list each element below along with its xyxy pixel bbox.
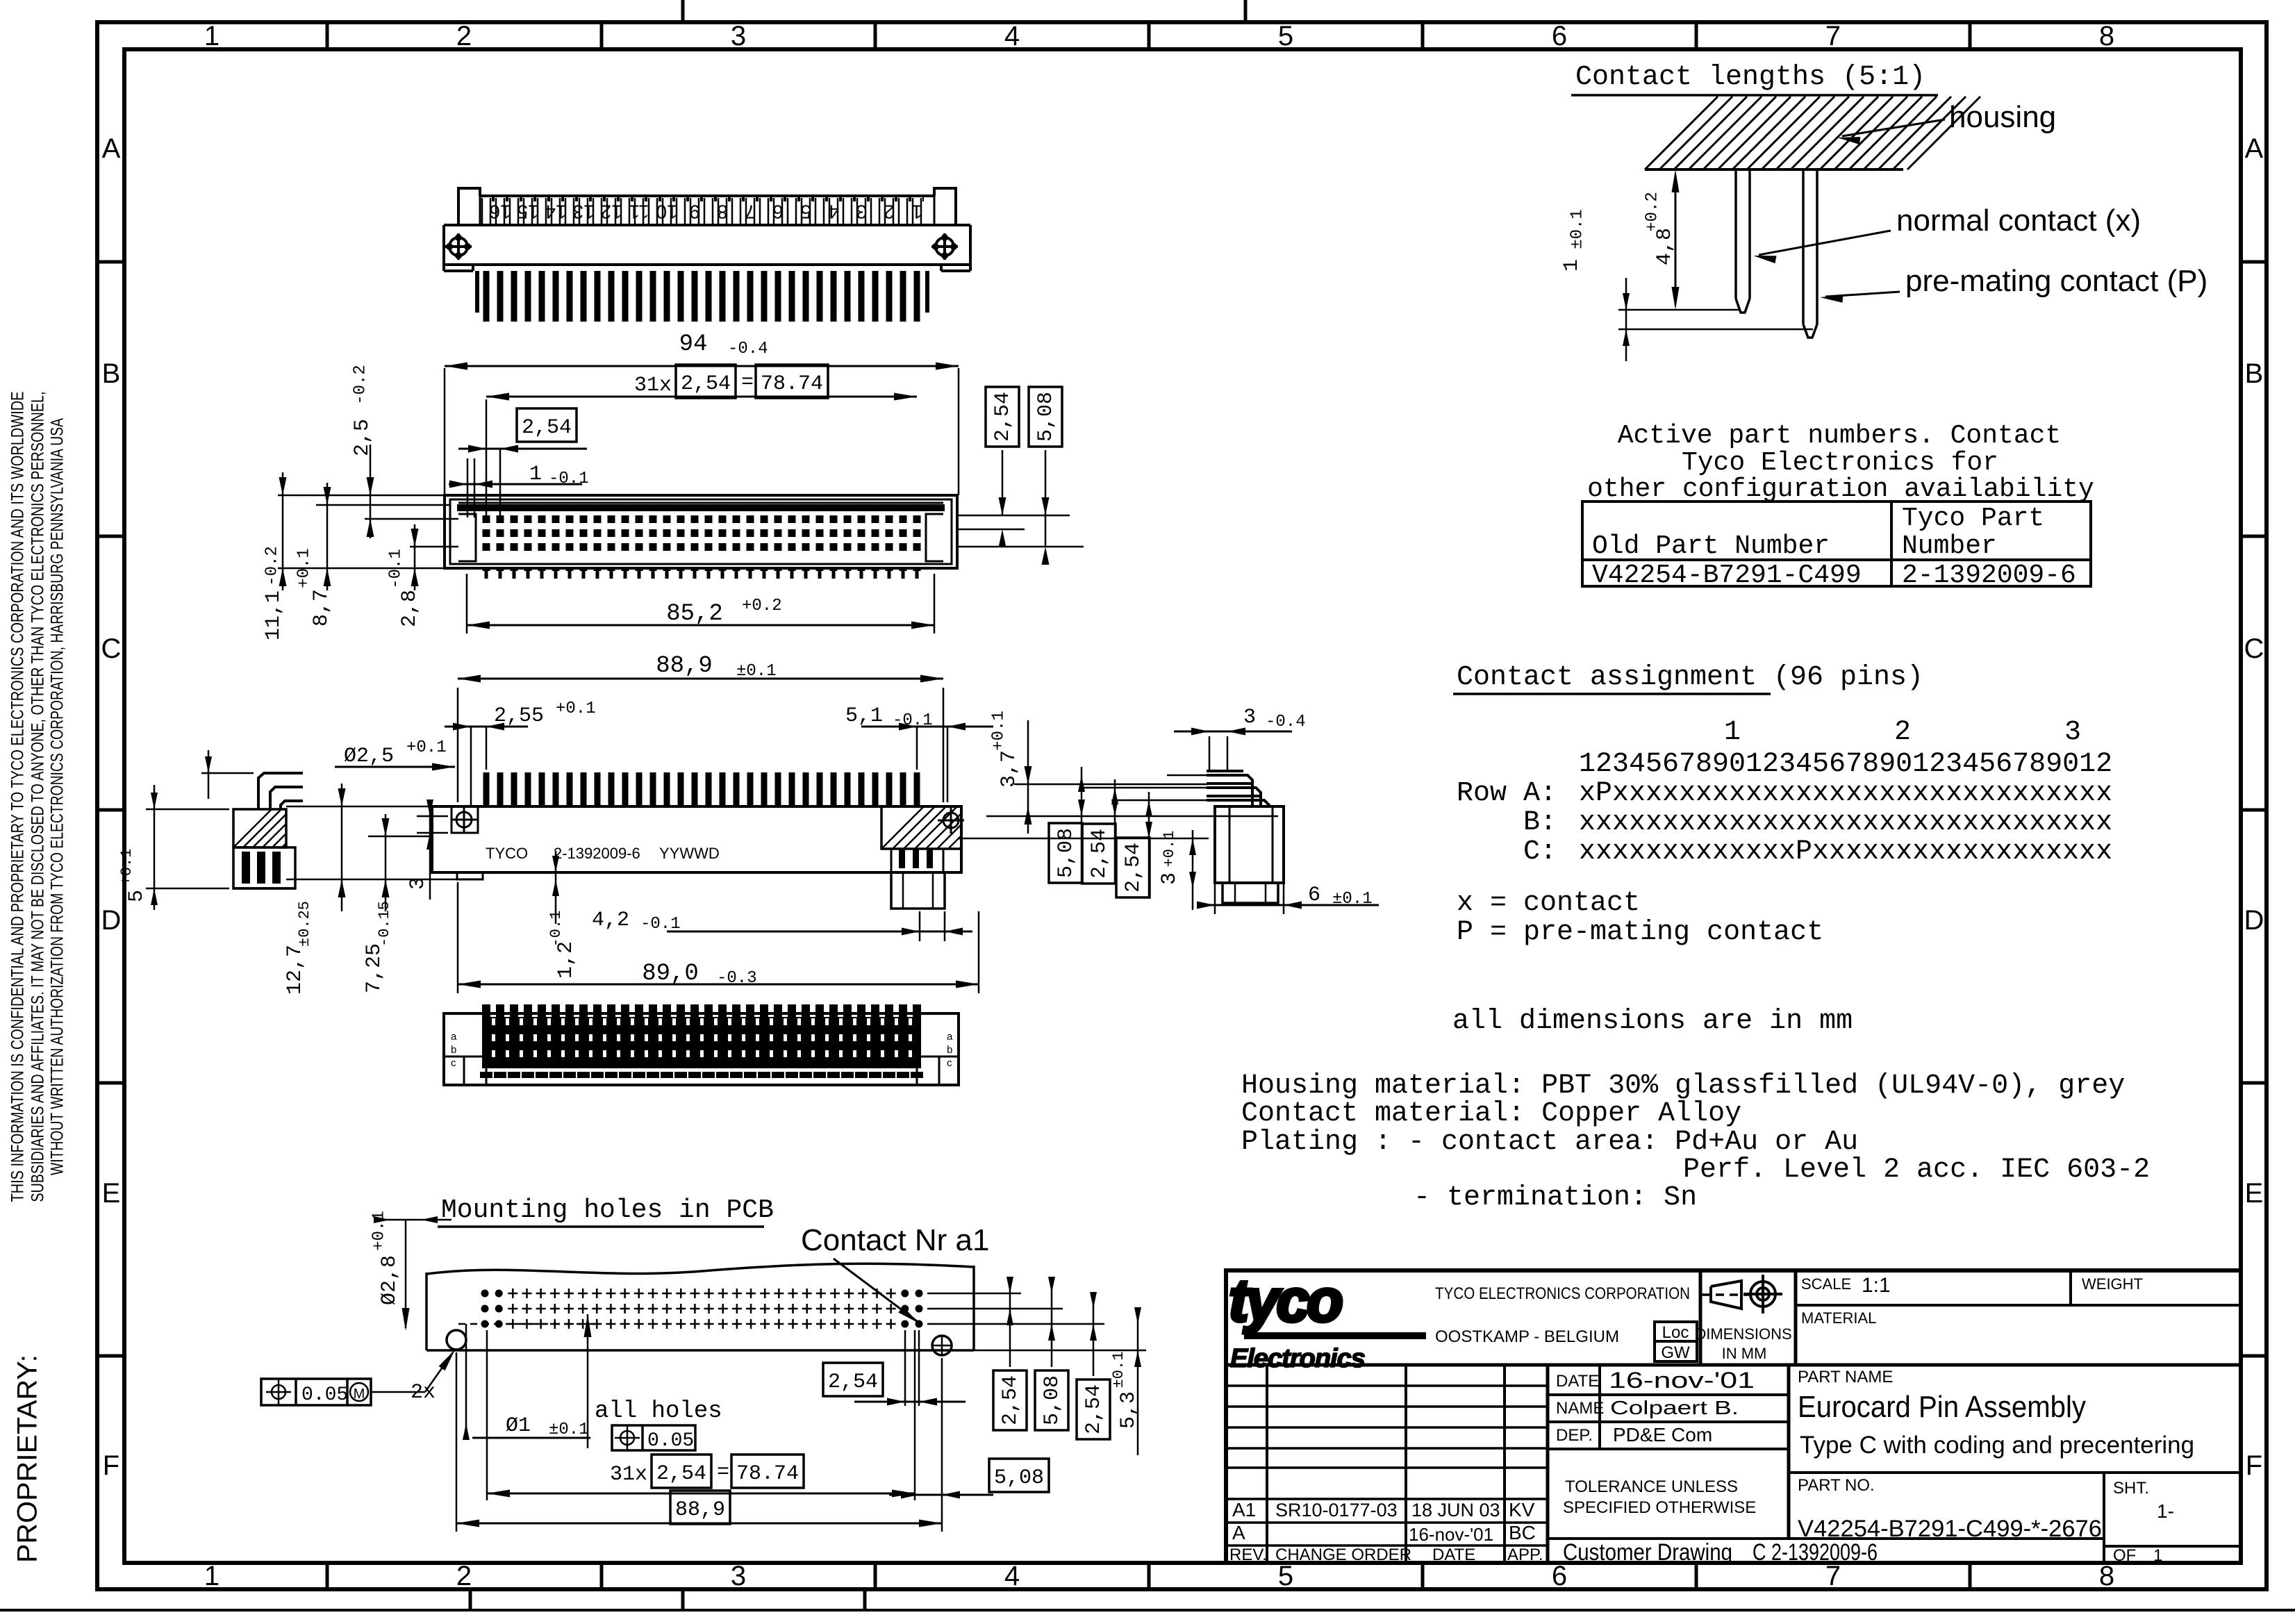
svg-text:- termination: Sn: - termination: Sn [1414, 1182, 1697, 1213]
svg-text:E: E [102, 1178, 121, 1209]
left PCB mounting hole [447, 1330, 466, 1350]
svg-text:12: 12 [600, 201, 622, 223]
dimension 7,25 -0.15 [368, 836, 432, 838]
dimension 2,8 -0.1 [414, 524, 416, 590]
svg-text:WITHOUT WRITTEN AUTHORIZATION: WITHOUT WRITTEN AUTHORIZATION FROM TYCO … [48, 418, 67, 1175]
side view top contact pins [483, 772, 490, 807]
svg-text:housing: housing [1949, 100, 2056, 134]
revision table empty rows [1226, 1384, 1548, 1387]
svg-text:REV.: REV. [1229, 1546, 1267, 1564]
svg-text:2: 2 [884, 201, 895, 223]
svg-text:B:: B: [1523, 807, 1557, 838]
svg-text:=: = [741, 371, 754, 395]
svg-text:11,1: 11,1 [262, 590, 285, 640]
rotated box dimension 2,54 chain first [1082, 824, 1116, 884]
position tolerance frame 0.05 all holes [612, 1425, 695, 1450]
dimension 11,1 -0.2 [282, 472, 284, 590]
svg-text:pre-mating contact (P): pre-mating contact (P) [1905, 264, 2207, 298]
svg-text:1:1: 1:1 [1862, 1274, 1891, 1297]
right side view bent pin row c [1207, 800, 1269, 806]
svg-text:Number: Number [1902, 531, 1997, 561]
zone column ticks top [326, 22, 329, 49]
svg-text:Contact material: Copper Alloy: Contact material: Copper Alloy [1241, 1098, 1741, 1129]
svg-text:2,54: 2,54 [1082, 1384, 1106, 1434]
svg-text:Loc: Loc [1662, 1323, 1689, 1342]
part name column divider [1787, 1365, 1791, 1539]
svg-text:DEP.: DEP. [1556, 1426, 1593, 1445]
svg-text:3: 3 [406, 877, 430, 890]
dimension 5 +0.1 left view [201, 772, 254, 774]
svg-text:P = pre-mating contact: P = pre-mating contact [1457, 917, 1823, 948]
svg-text:16-nov-'01: 16-nov-'01 [1409, 1524, 1493, 1545]
svg-text:2,54: 2,54 [681, 372, 731, 396]
dimension 4,8 +0.2 [1675, 175, 1677, 304]
svg-text:16: 16 [489, 201, 511, 223]
svg-text:A: A [1232, 1522, 1245, 1543]
revision row A [1226, 1544, 1548, 1547]
svg-text:SUBSIDIARIES AND AFFILIATES. I: SUBSIDIARIES AND AFFILIATES. IT MAY NOT … [28, 392, 48, 1202]
svg-text:2,54: 2,54 [991, 392, 1015, 442]
front view top rib (thick) [457, 504, 945, 511]
svg-text:5,1: 5,1 [845, 704, 883, 728]
svg-text:0.05: 0.05 [301, 1384, 348, 1406]
svg-text:2: 2 [456, 21, 472, 51]
rotated box dimension 2,54 pcb rows ab [993, 1370, 1027, 1430]
zone column ticks bottom [326, 1563, 329, 1589]
svg-text:SHT.: SHT. [2113, 1479, 2149, 1498]
svg-text:A1: A1 [1232, 1499, 1256, 1521]
svg-text:=: = [717, 1461, 729, 1484]
svg-text:5,08: 5,08 [1054, 828, 1078, 878]
projection symbol target [1750, 1282, 1775, 1307]
svg-text:OOSTKAMP - BELGIUM: OOSTKAMP - BELGIUM [1435, 1327, 1619, 1346]
svg-text:1: 1 [1724, 717, 1741, 748]
svg-text:3,7: 3,7 [997, 750, 1021, 788]
svg-text:F: F [2246, 1450, 2262, 1481]
sheet cell [2103, 1473, 2105, 1563]
svg-text:7: 7 [745, 201, 756, 223]
left side view lower cavity with pins [233, 847, 295, 888]
svg-text:4: 4 [1004, 1561, 1020, 1591]
leader line contact a1 [834, 1259, 917, 1321]
bottom view dense contact block [482, 1017, 921, 1068]
svg-text:SR10-0177-03: SR10-0177-03 [1275, 1500, 1398, 1521]
svg-text:Contact Nr a1: Contact Nr a1 [801, 1223, 989, 1257]
svg-text:-0.3: -0.3 [717, 969, 757, 988]
svg-text:16-nov-'01: 16-nov-'01 [1609, 1368, 1755, 1393]
zone row ticks right [2241, 260, 2267, 264]
dimension 1 -0.1 [449, 483, 582, 486]
svg-text:3: 3 [1243, 706, 1256, 729]
svg-text:2,54: 2,54 [1088, 829, 1111, 879]
svg-text:13: 13 [572, 201, 594, 223]
svg-text:KV: KV [1509, 1499, 1535, 1521]
bottom view left end cell [486, 1013, 488, 1085]
bottom view pin tips comb top [482, 1004, 490, 1018]
svg-text:C: C [101, 633, 122, 664]
svg-text:8,7: 8,7 [310, 589, 333, 627]
svg-text:7,25: 7,25 [363, 943, 386, 993]
svg-text:6: 6 [1308, 884, 1320, 907]
svg-text:B: B [2245, 358, 2264, 389]
svg-text:c: c [947, 1057, 952, 1069]
dimension 5,08 pcb bottom [989, 1459, 1049, 1492]
svg-text:DIMENSIONS: DIMENSIONS [1695, 1325, 1791, 1343]
svg-text:YYWWD: YYWWD [659, 845, 720, 862]
svg-text:5: 5 [125, 890, 149, 902]
svg-text:DATE: DATE [1556, 1372, 1599, 1391]
svg-text:Contact lengths (5:1): Contact lengths (5:1) [1575, 62, 1925, 93]
svg-text:1: 1 [204, 1561, 219, 1591]
svg-text:D: D [2244, 905, 2264, 936]
svg-text:b: b [451, 1044, 456, 1056]
svg-text:Ø2,5: Ø2,5 [344, 745, 394, 768]
extension lines right of PCB [927, 1293, 1021, 1295]
svg-text:±0.1: ±0.1 [736, 662, 777, 681]
rotated box dimension 2,54 right of front view [986, 387, 1019, 447]
svg-text:SCALE: SCALE [1801, 1275, 1851, 1293]
housing hatched block [1645, 168, 1903, 171]
svg-text:123456789012345678901234567890: 12345678901234567890123456789012 [1579, 749, 2112, 780]
svg-text:88,9: 88,9 [656, 653, 713, 679]
side view body [432, 806, 961, 872]
svg-text:PART NAME: PART NAME [1798, 1368, 1893, 1386]
svg-text:2,54: 2,54 [656, 1462, 706, 1486]
dimension 88,9 pcb [670, 1491, 730, 1524]
svg-text:Row A:: Row A: [1457, 778, 1557, 809]
dimension 85,2 +0.2 [466, 574, 468, 633]
svg-text:2-1392009-6: 2-1392009-6 [554, 845, 640, 862]
svg-text:Housing material: PBT 30% glas: Housing material: PBT 30% glassfilled (U… [1241, 1070, 2125, 1102]
dimension 2,54 pcb top [823, 1363, 883, 1396]
svg-text:x = contact: x = contact [1457, 888, 1640, 919]
svg-text:85,2: 85,2 [666, 601, 723, 627]
svg-text:15: 15 [517, 201, 538, 223]
PCB outline [425, 1273, 428, 1350]
svg-text:xPxxxxxxxxxxxxxxxxxxxxxxxxxxxx: xPxxxxxxxxxxxxxxxxxxxxxxxxxxxxxx [1579, 778, 2112, 809]
dimension 31x 2,54 = 78.74 [486, 396, 917, 398]
svg-text:WEIGHT: WEIGHT [2082, 1275, 2143, 1293]
rotated box dimension 5,08 pcb rows ac [1035, 1370, 1068, 1430]
svg-text:MATERIAL: MATERIAL [1801, 1309, 1876, 1327]
title block vertical divider after logo [1699, 1270, 1702, 1365]
svg-text:Ø2,8: Ø2,8 [378, 1255, 401, 1305]
dashed datum line from left hole [458, 1323, 597, 1325]
svg-text:Perf. Level 2 acc. IEC 603-2: Perf. Level 2 acc. IEC 603-2 [1683, 1154, 2150, 1186]
svg-text:xxxxxxxxxxxxxPxxxxxxxxxxxxxxxx: xxxxxxxxxxxxxPxxxxxxxxxxxxxxxxxx [1579, 836, 2112, 868]
top view right mounting screw [936, 238, 954, 256]
svg-text:2: 2 [456, 1561, 472, 1591]
left dimension extension lines front view [278, 495, 445, 497]
front view contact grid 3x32 [483, 515, 490, 523]
svg-text:NAME: NAME [1556, 1399, 1604, 1418]
dimension 2,5 -0.2 [370, 445, 372, 538]
svg-text:other configuration availabili: other configuration availability [1587, 474, 2094, 504]
svg-text:F: F [103, 1450, 119, 1481]
svg-text:Eurocard Pin Assembly: Eurocard Pin Assembly [1798, 1390, 2086, 1424]
side view right cavity with pins [891, 849, 943, 872]
rotated box dimension 5,08 chain [1049, 823, 1082, 883]
left side view hatched body [233, 809, 286, 847]
rotated box dimension 2,54 pcb row c to edge [1077, 1379, 1110, 1439]
svg-text:3: 3 [731, 21, 746, 51]
bottom view bottom dash strip [480, 1072, 492, 1078]
svg-text:D: D [101, 905, 122, 936]
svg-text:1: 1 [911, 201, 922, 223]
bottom view right end cell [916, 1013, 918, 1085]
svg-text:+0.1: +0.1 [370, 1211, 388, 1251]
svg-text:2,54: 2,54 [999, 1375, 1022, 1425]
svg-text:+0.2: +0.2 [1643, 192, 1662, 232]
svg-text:3: 3 [2064, 717, 2081, 748]
title block outer frame [1226, 1270, 2241, 1563]
svg-text:all holes: all holes [595, 1398, 722, 1425]
svg-text:2-1392009-6: 2-1392009-6 [1902, 561, 2076, 590]
svg-text:tyco: tyco [1229, 1268, 1341, 1334]
svg-text:31x: 31x [634, 374, 672, 397]
title block vertical divider before scale [1794, 1270, 1798, 1365]
svg-text:+0.2: +0.2 [742, 597, 782, 615]
svg-text:SPECIFIED OTHERWISE: SPECIFIED OTHERWISE [1563, 1498, 1756, 1517]
svg-text:THIS INFORMATION IS CONFIDENTI: THIS INFORMATION IS CONFIDENTIAL AND PRO… [8, 392, 28, 1202]
svg-text:Colpaert B.: Colpaert B. [1610, 1397, 1739, 1418]
svg-text:8: 8 [2099, 1561, 2114, 1591]
PCB hole pattern [481, 1290, 489, 1298]
svg-text:10: 10 [656, 201, 677, 223]
svg-text:2,54: 2,54 [522, 416, 572, 440]
svg-text:PROPRIETARY:: PROPRIETARY: [13, 1354, 43, 1563]
svg-text:(96 pins): (96 pins) [1773, 662, 1923, 693]
svg-text:-0.1: -0.1 [549, 470, 589, 488]
svg-text:A: A [2245, 133, 2264, 164]
svg-text:C 2-1392009-6: C 2-1392009-6 [1753, 1539, 1878, 1566]
svg-text:7: 7 [1825, 21, 1841, 51]
revision table columns [1266, 1365, 1268, 1563]
dimension 8,7 +0.1 [326, 483, 329, 590]
svg-text:Active part numbers. Contact: Active part numbers. Contact [1618, 421, 2062, 451]
svg-text:IN MM: IN MM [1722, 1345, 1767, 1362]
svg-text:4,8: 4,8 [1653, 228, 1677, 265]
right side view body [1215, 806, 1284, 883]
zone row ticks left [97, 260, 124, 264]
svg-text:31x: 31x [610, 1463, 647, 1486]
right side view bent pin row b [1207, 788, 1261, 806]
position tolerance frame 0.05 M [261, 1379, 371, 1405]
svg-text:2,5: 2,5 [351, 419, 374, 456]
projection symbol cone [1711, 1281, 1741, 1309]
svg-text:Old Part Number: Old Part Number [1592, 531, 1830, 561]
top view solder pins comb [483, 271, 490, 322]
svg-text:3: 3 [856, 201, 867, 223]
svg-text:2: 2 [1894, 717, 1911, 748]
dimension 1,2 -0.1 [555, 851, 557, 924]
svg-text:8: 8 [2099, 21, 2114, 51]
left side view bent pins [258, 773, 303, 809]
svg-text:-0.2: -0.2 [263, 546, 281, 586]
svg-text:78.74: 78.74 [761, 372, 823, 396]
side view right coding screw [943, 813, 959, 828]
title block horizontal line under logo row [1226, 1364, 2241, 1367]
svg-text:TOLERANCE UNLESS: TOLERANCE UNLESS [1565, 1477, 1738, 1496]
svg-text:1: 1 [1560, 259, 1584, 272]
svg-text:±0.25: ±0.25 [296, 901, 313, 947]
svg-text:Ø1: Ø1 [506, 1414, 531, 1438]
dimension 89,0 -0.3 [457, 882, 459, 993]
svg-text:-0.2: -0.2 [351, 365, 370, 405]
svg-text:1: 1 [529, 463, 542, 486]
svg-text:18 JUN 03: 18 JUN 03 [1411, 1500, 1500, 1521]
right side view bottom foot [1223, 883, 1278, 903]
svg-text:+0.1: +0.1 [406, 738, 447, 757]
svg-text:b: b [947, 1044, 952, 1056]
top view connector body band [444, 224, 970, 226]
side view left bottom foot [457, 872, 483, 879]
Loc GW box [1655, 1322, 1697, 1361]
svg-text:6: 6 [772, 201, 784, 223]
svg-text:xxxxxxxxxxxxxxxxxxxxxxxxxxxxxx: xxxxxxxxxxxxxxxxxxxxxxxxxxxxxxxx [1579, 807, 2112, 838]
svg-text:5,08: 5,08 [1041, 1375, 1064, 1425]
svg-text:2,54: 2,54 [1122, 843, 1145, 893]
dimension 1 +-0.1 [1618, 309, 1741, 311]
svg-text:BC: BC [1509, 1522, 1536, 1543]
front view right bracket [926, 514, 943, 561]
svg-text:APP.: APP. [1507, 1546, 1543, 1564]
right PCB mounting hole [932, 1336, 952, 1355]
side view left mounting tab [451, 806, 478, 833]
svg-text:Customer Drawing: Customer Drawing [1563, 1539, 1732, 1566]
rotated box dimension 5,08 right of front view [1029, 387, 1062, 447]
top view right polarizing ear [934, 188, 956, 225]
svg-text:2,54: 2,54 [828, 1370, 878, 1394]
svg-text:5: 5 [1278, 21, 1293, 51]
top view left mounting screw [449, 238, 467, 256]
svg-text:94: 94 [679, 331, 708, 358]
svg-text:-0.15: -0.15 [376, 901, 393, 947]
centering tick marks [681, 0, 685, 22]
svg-text:Type C with coding and precent: Type C with coding and precentering [1800, 1432, 2194, 1459]
top view contact slot row [480, 194, 934, 197]
svg-text:Mounting holes in PCB: Mounting holes in PCB [441, 1195, 774, 1225]
svg-text:4,2: 4,2 [592, 909, 629, 932]
svg-text:B: B [102, 358, 121, 389]
svg-text:E: E [2245, 1178, 2264, 1209]
front view inner walls [450, 499, 952, 564]
svg-text:+0.1: +0.1 [1161, 831, 1178, 868]
rotated box dimension 2,54 chain second [1116, 838, 1150, 897]
svg-text:Tyco Part: Tyco Part [1902, 504, 2044, 533]
svg-text:5,08: 5,08 [994, 1466, 1044, 1490]
pre-mating contact pin [1802, 169, 1805, 324]
svg-text:89,0: 89,0 [642, 961, 699, 987]
svg-text:12,7: 12,7 [283, 945, 307, 995]
svg-text:PART NO.: PART NO. [1798, 1476, 1875, 1495]
svg-text:3: 3 [731, 1561, 746, 1591]
svg-text:Contact assignment: Contact assignment [1457, 662, 1757, 693]
bottom film strip line [0, 1609, 2295, 1611]
weight cell [2069, 1270, 2072, 1305]
svg-text:14: 14 [545, 201, 566, 223]
svg-text:GW: GW [1661, 1343, 1690, 1362]
revision row A1 [1226, 1521, 1548, 1524]
svg-text:8: 8 [717, 201, 728, 223]
svg-text:+0.1: +0.1 [295, 548, 313, 588]
date name dep table [1598, 1365, 1601, 1449]
svg-text:a: a [451, 1031, 457, 1043]
svg-text:+0.1: +0.1 [556, 699, 596, 718]
svg-text:-0.4: -0.4 [728, 340, 768, 358]
svg-text:+0.1: +0.1 [989, 711, 1008, 751]
svg-text:CHANGE ORDER: CHANGE ORDER [1275, 1546, 1411, 1564]
svg-text:M: M [354, 1386, 365, 1402]
normal contact pin [1734, 169, 1737, 299]
svg-text:c: c [451, 1057, 456, 1069]
tyco logo underline bar [1244, 1332, 1426, 1339]
svg-text:C:: C: [1523, 836, 1557, 868]
svg-text:Plating : - contact area: Pd+A: Plating : - contact area: Pd+Au or Au [1241, 1127, 1858, 1158]
svg-text:OF: OF [2113, 1546, 2136, 1565]
svg-text:±0.1: ±0.1 [1568, 209, 1586, 249]
dimension 3 side view left [429, 811, 431, 900]
front view left bracket [458, 514, 476, 561]
dimension 94 -0.4 [444, 368, 446, 495]
svg-text:Electronics: Electronics [1230, 1344, 1365, 1373]
svg-text:11: 11 [629, 201, 649, 223]
svg-text:78.74: 78.74 [736, 1462, 799, 1486]
svg-text:Tyco Electronics for: Tyco Electronics for [1682, 448, 1998, 478]
customer drawing row [1548, 1537, 2104, 1540]
dimension 2,54 pitch [458, 448, 587, 450]
svg-text:normal contact (x): normal contact (x) [1896, 204, 2141, 238]
svg-text:3: 3 [1158, 872, 1182, 885]
svg-text:all dimensions are in mm: all dimensions are in mm [1452, 1006, 1853, 1037]
svg-text:2,8: 2,8 [398, 590, 422, 627]
right side view bent pin row a [1207, 775, 1252, 806]
svg-text:+0.1: +0.1 [118, 849, 135, 886]
front view outer body [445, 495, 957, 568]
svg-text:a: a [947, 1031, 953, 1043]
extension lines right chain [1167, 774, 1211, 777]
svg-text:TYCO ELECTRONICS CORPORATION: TYCO ELECTRONICS CORPORATION [1435, 1284, 1690, 1303]
svg-text:5: 5 [800, 201, 811, 223]
svg-text:6: 6 [1552, 21, 1567, 51]
svg-text:1: 1 [204, 21, 219, 51]
svg-text:A: A [102, 133, 121, 164]
svg-text:9: 9 [689, 201, 700, 223]
svg-text:1-: 1- [2157, 1500, 2174, 1522]
svg-text:PD&E Com: PD&E Com [1613, 1424, 1712, 1445]
svg-text:-0.1: -0.1 [386, 549, 405, 589]
svg-text:1: 1 [2153, 1546, 2162, 1565]
bottom view outer body [444, 1013, 959, 1085]
svg-text:±0.1: ±0.1 [1110, 1352, 1127, 1389]
svg-text:DATE: DATE [1432, 1546, 1475, 1564]
svg-text:5,08: 5,08 [1034, 392, 1058, 442]
side view right coding key hatched block [881, 806, 961, 849]
svg-text:V42254-B7291-C499: V42254-B7291-C499 [1592, 561, 1862, 590]
dimension 88,9 +-0.1 [457, 688, 459, 802]
svg-text:0.05: 0.05 [647, 1430, 694, 1452]
svg-text:5: 5 [1278, 1561, 1293, 1591]
svg-text:C: C [2244, 633, 2264, 664]
side view right bottom foot [891, 872, 945, 909]
part number table frame [1582, 502, 2091, 586]
front view bottom teeth [485, 568, 488, 579]
svg-text:88,9: 88,9 [675, 1498, 725, 1522]
dimension 12,7 +-0.25 [286, 806, 432, 808]
svg-text:4: 4 [828, 201, 839, 223]
svg-text:-0.1: -0.1 [547, 911, 565, 947]
svg-text:TYCO: TYCO [486, 845, 528, 862]
